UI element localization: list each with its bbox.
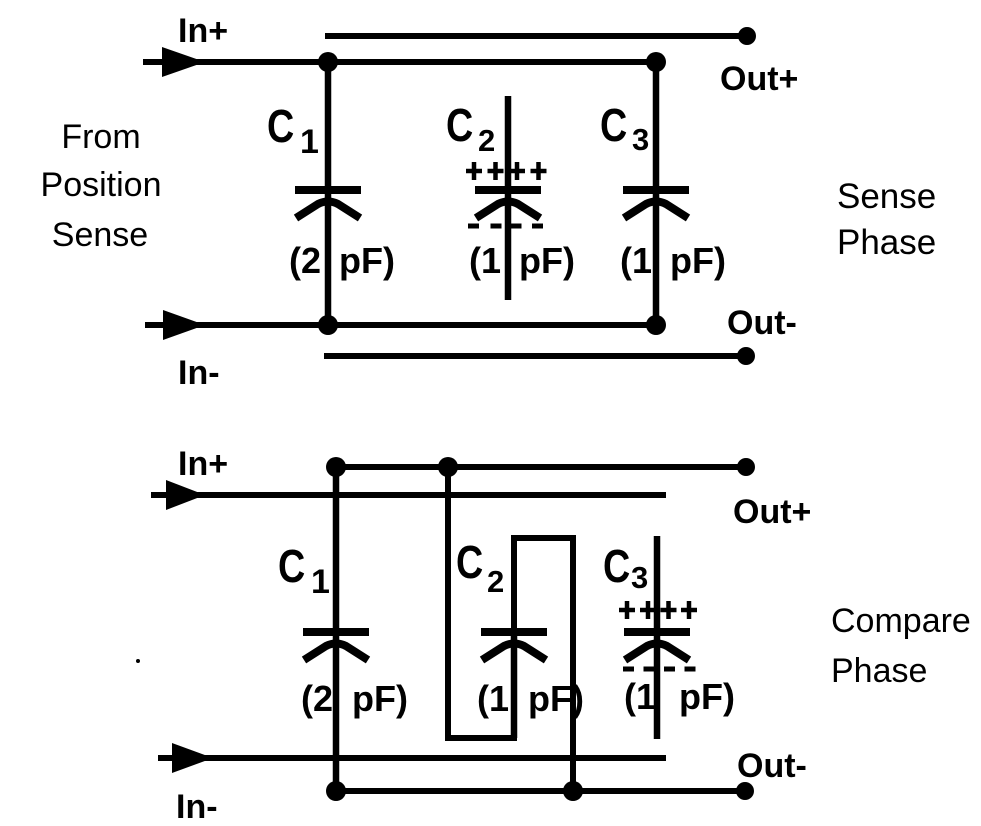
svg-text:From: From — [61, 118, 140, 156]
svg-text:Phase: Phase — [837, 223, 936, 262]
node Out+ terminal dot (sense) — [738, 27, 756, 45]
node In+ (compare) label — [178, 445, 228, 483]
wire Out+ line (compare) — [336, 464, 746, 470]
label C1 (sense) — [267, 100, 319, 161]
input arrow In+ (sense) — [143, 47, 205, 77]
value (1 pF) C2 (compare) — [477, 678, 584, 719]
wire Out- line (compare) — [336, 788, 745, 794]
svg-text:(1: (1 — [469, 240, 501, 281]
svg-text:1: 1 — [300, 123, 319, 161]
svg-text:Out+: Out+ — [733, 493, 811, 531]
node In- (compare) label — [176, 788, 218, 826]
svg-text:C: C — [456, 536, 483, 587]
wire In- line (compare, open) — [176, 755, 666, 761]
svg-text:Out+: Out+ — [720, 60, 798, 98]
svg-text:1: 1 — [311, 563, 330, 601]
label From Position Sense — [41, 118, 162, 254]
capacitor C2 (compare, flipped across outputs) — [448, 467, 573, 791]
label Compare Phase — [831, 602, 971, 690]
junction C1/top rail (sense) — [318, 52, 338, 72]
label C3 (sense) — [600, 99, 649, 157]
svg-text:pF): pF) — [339, 240, 395, 281]
stray scan speck — [136, 659, 140, 663]
svg-text:Sense: Sense — [52, 216, 148, 254]
svg-text:In-: In- — [178, 354, 220, 392]
svg-text:3: 3 — [631, 560, 648, 595]
svg-text:Compare: Compare — [831, 602, 971, 640]
label Sense Phase — [837, 177, 936, 262]
junction C3/bottom rail (sense) — [646, 315, 666, 335]
node In+ (sense) label — [178, 12, 228, 50]
wire Out+ line (sense) — [325, 33, 747, 39]
svg-text:Position: Position — [41, 166, 162, 204]
svg-text:(1: (1 — [620, 240, 652, 281]
svg-text:(2: (2 — [289, 240, 321, 281]
junction C1/bottom rail (sense) — [318, 315, 338, 335]
label C2 (compare) — [456, 536, 504, 599]
value (1 pF) C3 (compare) — [624, 676, 735, 717]
capacitor C1 (sense) — [295, 62, 361, 325]
svg-text:3: 3 — [632, 122, 649, 157]
input arrow In- (compare) — [158, 743, 213, 773]
junction C2/Out- line (compare) — [563, 781, 583, 801]
value (2 pF) C1 (compare) — [301, 678, 408, 719]
node Out- (sense) label — [727, 304, 797, 342]
value (2 pF) C1 (sense) — [289, 240, 395, 281]
svg-text:(1: (1 — [624, 676, 656, 717]
junction C1/Out+ line (compare) — [326, 457, 346, 477]
node Out- terminal dot (sense) — [737, 347, 755, 365]
svg-text:In+: In+ — [178, 12, 228, 50]
value (1 pF) C2 (sense) — [469, 240, 575, 281]
capacitor C3 (compare, floating, charged) — [624, 536, 690, 739]
svg-text:C: C — [600, 99, 627, 150]
wire top rail In+ (sense) — [166, 59, 656, 65]
svg-text:(1: (1 — [477, 678, 509, 719]
label C3 (compare) — [603, 540, 648, 595]
node Out+ terminal dot (compare) — [737, 458, 755, 476]
svg-text:Out-: Out- — [737, 747, 807, 785]
svg-text:C: C — [267, 100, 294, 151]
label C2 (sense) — [446, 99, 495, 158]
node In- (sense) label — [178, 354, 220, 392]
node Out+ (sense) label — [720, 60, 798, 98]
input arrow In+ (compare) — [151, 480, 205, 510]
capacitor C1 (compare) — [303, 467, 369, 791]
svg-text:pF): pF) — [670, 240, 726, 281]
junction C3/top rail (sense) — [646, 52, 666, 72]
input arrow In- (sense) — [145, 310, 205, 340]
svg-text:In-: In- — [176, 788, 218, 826]
svg-text:C: C — [446, 99, 473, 150]
node Out- terminal dot (compare) — [736, 782, 754, 800]
wire In+ line (compare, open) — [170, 492, 666, 498]
svg-text:2: 2 — [478, 123, 495, 158]
svg-text:pF): pF) — [679, 676, 735, 717]
charge marks ++++ C3 (compare) — [619, 601, 697, 619]
capacitor C2 (sense, floating, charged) — [475, 96, 541, 300]
wire Out- line (sense) — [324, 353, 746, 359]
junction C2/Out+ line (compare) — [438, 457, 458, 477]
node Out+ (compare) label — [733, 493, 811, 531]
label C1 (compare) — [278, 540, 330, 601]
svg-text:Phase: Phase — [831, 652, 927, 690]
svg-text:C: C — [603, 540, 630, 591]
svg-text:pF): pF) — [519, 240, 575, 281]
svg-text:pF): pF) — [352, 678, 408, 719]
svg-text:Out-: Out- — [727, 304, 797, 342]
svg-text:(2: (2 — [301, 678, 333, 719]
svg-text:pF): pF) — [528, 678, 584, 719]
value (1 pF) C3 (sense) — [620, 240, 726, 281]
junction C1/Out- line (compare) — [326, 781, 346, 801]
svg-text:Sense: Sense — [837, 177, 936, 216]
svg-text:In+: In+ — [178, 445, 228, 483]
node Out- (compare) label — [737, 747, 807, 785]
capacitor C3 (sense) — [623, 62, 689, 325]
svg-text:2: 2 — [487, 564, 504, 599]
svg-text:C: C — [278, 540, 305, 591]
charge marks ++++ C2 (sense) — [466, 162, 547, 180]
wire bottom rail In- (sense) — [168, 322, 656, 328]
